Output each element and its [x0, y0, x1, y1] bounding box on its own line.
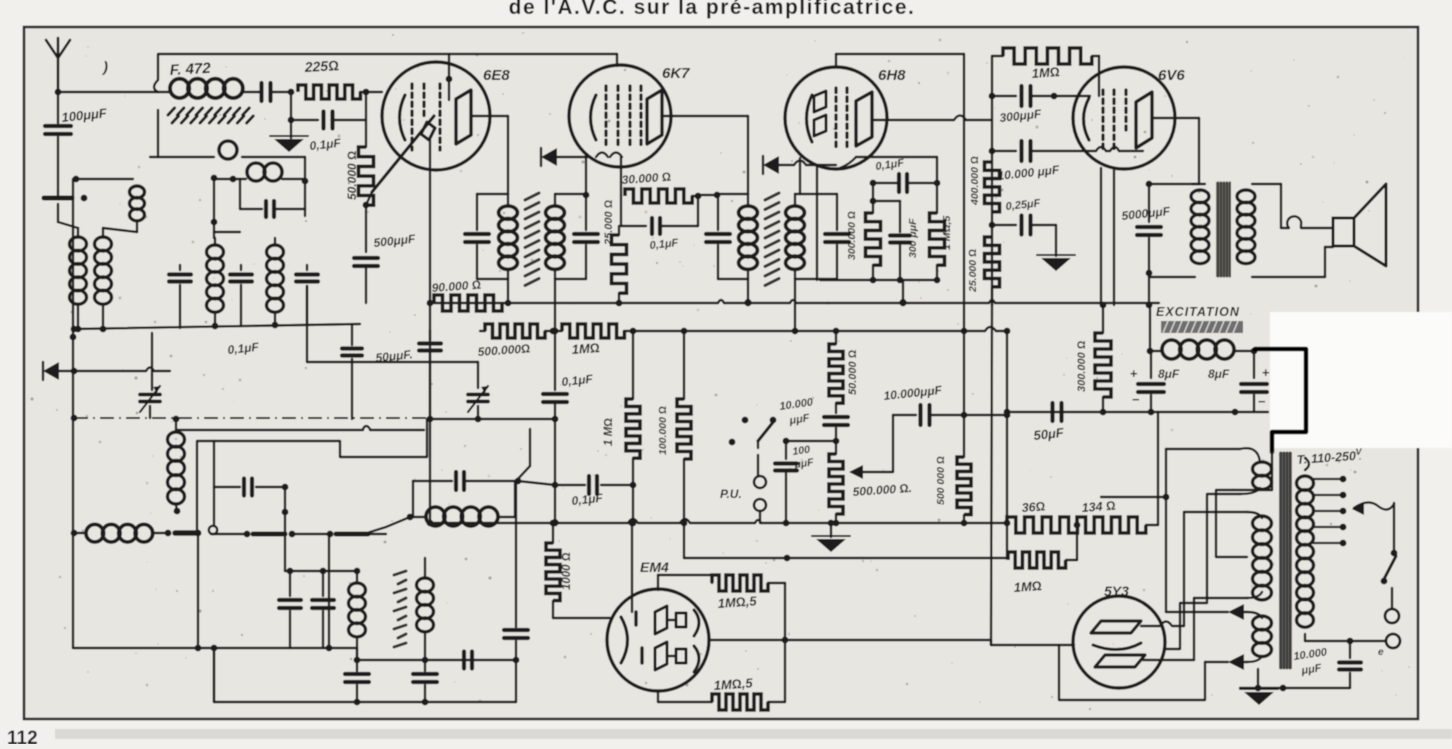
svg-text:36Ω: 36Ω: [1021, 499, 1046, 515]
svg-text:300 μμF: 300 μμF: [907, 218, 919, 258]
wire x992 column low: [991, 305, 992, 645]
label 8uF 1: [1158, 367, 1180, 381]
minus left: [1132, 392, 1140, 407]
PT W1 bottom wire: [1164, 494, 1240, 649]
IF2 core: [765, 193, 779, 286]
wire diode return: [794, 158, 806, 194]
wire 76 to coil: [76, 178, 133, 180]
AVC wire y371: [50, 368, 170, 375]
resistor 300000 supply: [1095, 305, 1111, 412]
label 30000 ohm: [621, 170, 671, 187]
label 1000 ohm: [561, 552, 573, 590]
svg-text:225Ω: 225Ω: [303, 57, 339, 75]
capacitor 10000uuF tone: [893, 405, 1010, 425]
EM4 right arc: [694, 610, 699, 672]
EM4 plate 1: [655, 606, 686, 634]
node L2 836: [833, 328, 840, 335]
capacitor 50uuF osc: [419, 330, 441, 419]
label 300000 supply: [1076, 340, 1088, 392]
label 1M5 top: [717, 593, 758, 611]
capacitor low 2: [413, 632, 437, 702]
label 5Y3: [1104, 583, 1129, 599]
AVC arrow 6K7: [541, 148, 557, 166]
primary bottom wire: [1305, 638, 1386, 645]
node 992-151: [989, 148, 996, 155]
caption text: [509, 0, 916, 19]
bus left y328: [71, 324, 360, 332]
resistor 1M5 top em4: [712, 575, 768, 591]
heater wires left: [1101, 449, 1228, 612]
label EM4: [640, 559, 669, 575]
resistor 1M5 bottom em4: [712, 694, 768, 710]
ground 6v6 grid: [1037, 255, 1075, 271]
resistor 1M heater: [1008, 533, 1077, 568]
osc coil left: [207, 238, 224, 329]
label 0.1uF 6k7: [649, 237, 679, 252]
resistor 30000 ohm: [625, 189, 692, 203]
mains terminal 1: [1385, 609, 1399, 623]
coil F472: [158, 79, 258, 98]
resistor 90000: [434, 295, 502, 311]
osc pad caps top wire: [285, 568, 360, 575]
resistor 1M det vert: [626, 331, 640, 526]
6V6 grid column 3: [1124, 90, 1127, 130]
AVC arrow left: [43, 362, 59, 380]
resistor 134 ohm: [1077, 517, 1146, 533]
resistor 225 ohm: [298, 85, 382, 99]
svg-text:1000 Ω: 1000 Ω: [561, 552, 573, 590]
6K7 grid column 1: [604, 86, 607, 148]
switch contact 1: [165, 530, 202, 537]
capacitor 0.1uF avc: [543, 328, 567, 527]
label 50uF: [1033, 425, 1066, 443]
capacitor 5000uuF: [1137, 184, 1161, 273]
wire det node down: [516, 429, 558, 627]
svg-text:112: 112: [7, 728, 38, 744]
label 1M vert det: [603, 418, 615, 446]
coil small left: [130, 186, 145, 232]
capacitor 0.1uF 6k7: [652, 218, 698, 234]
plus left: [1130, 366, 1138, 381]
node L5 787: [784, 555, 791, 562]
capacitor low 1: [345, 637, 369, 702]
capacitor 50uF: [1053, 403, 1062, 421]
6H8 diode plate 1: [814, 91, 826, 112]
ground detector: [812, 520, 850, 552]
tube 6H8 envelope: [785, 67, 887, 169]
svg-text:−: −: [1258, 394, 1266, 409]
label 025uF: [1005, 197, 1041, 213]
6E8 osc anode diamond: [421, 122, 435, 140]
excitation core bar: [1161, 321, 1243, 333]
node 233-179: [230, 176, 237, 183]
6V6 cathode: [1084, 98, 1090, 140]
6V6 grid column 1: [1101, 90, 1104, 152]
label 0.1uF top: [309, 136, 342, 153]
wire 903 down to L1: [900, 280, 907, 306]
label 6K7: [662, 65, 690, 82]
capacitor osc pair: [240, 179, 305, 217]
switch radio-pu: [729, 417, 777, 446]
IF2 primary winding and trimmer: [706, 194, 757, 279]
5Y3 plate 1: [1091, 621, 1141, 633]
6K7 grid column 4: [639, 86, 642, 148]
resistor 50000 vol: [829, 331, 843, 403]
IF2 secondary winding and trimmer: [786, 194, 849, 279]
label 25000 vert right: [967, 249, 979, 293]
resistor 400000: [985, 162, 1000, 212]
node after cap: [288, 89, 295, 96]
svg-text:6V6: 6V6: [1158, 67, 1185, 84]
label 36 ohm: [1021, 499, 1046, 515]
node L2 684: [681, 328, 688, 335]
PT taps: [1313, 476, 1346, 547]
6H8 grid column 2: [845, 88, 848, 150]
svg-text:6H8: 6H8: [878, 67, 906, 84]
label 6V6: [1158, 67, 1185, 84]
node 430-303: [427, 300, 434, 307]
potentiometer 500000: [829, 441, 843, 526]
label 134 ohm: [1081, 499, 1116, 515]
6K7 grid column 2: [616, 86, 619, 148]
6V6 plate wire: [1152, 118, 1199, 184]
svg-text:P.U.: P.U.: [720, 487, 742, 501]
node 836-441: [833, 438, 840, 445]
resistor 1M5: [930, 183, 945, 280]
svg-text:EXCITATION: EXCITATION: [1156, 305, 1240, 319]
resistor 1M top: [992, 48, 1099, 64]
6K7 grid column 3: [628, 86, 631, 148]
capacitor 0.1uF 6h8: [856, 157, 937, 192]
svg-text:300.000 Ω: 300.000 Ω: [846, 211, 858, 260]
EM4 plate 2: [655, 642, 686, 670]
svg-text:5Y3: 5Y3: [1104, 583, 1129, 599]
wire cap branch left: [619, 196, 646, 235]
capacitor 10000uuF vol: [824, 403, 848, 441]
capacitor 0.1uF left: [342, 349, 362, 420]
capacitor 0.1 y660: [464, 652, 472, 669]
label 100uuF pu: [792, 444, 815, 471]
node L1 1103: [1100, 302, 1107, 309]
svg-text:): ): [101, 59, 108, 76]
svg-text:1 MΩ: 1 MΩ: [603, 418, 615, 446]
label transformer: [1296, 446, 1363, 467]
6V6 cathode wires down: [1101, 168, 1114, 305]
resistor 100000 vert: [677, 331, 691, 526]
OT primary coil: [1191, 184, 1209, 264]
wire 5y3 loop to arrow: [1205, 661, 1228, 663]
EM4 grid wire: [629, 520, 636, 612]
6E8 grid column 1: [410, 84, 413, 150]
svg-text:1MΩ: 1MΩ: [1013, 578, 1042, 595]
bus L4: [430, 519, 1007, 523]
wire 134 right: [1146, 412, 1158, 525]
OT primary bottom wire: [1146, 270, 1195, 305]
capacitor 8uF 2: [1241, 351, 1267, 412]
label e terminal: [1378, 647, 1384, 658]
label 500000 pot: [852, 481, 912, 499]
PT W2 tap wire: [1216, 452, 1272, 557]
5Y3 plate 2: [1095, 655, 1145, 667]
label F.472: [169, 60, 211, 79]
field coil: [1150, 340, 1254, 359]
svg-text:de l'A.V.C. sur la pré-amplifi: de l'A.V.C. sur la pré-amplificatrice.: [509, 0, 916, 19]
switch contact 2: [211, 531, 285, 538]
IF1 secondary grid wire: [583, 154, 590, 198]
6E8 grid column 3: [438, 84, 441, 150]
PT primary: [1297, 458, 1314, 641]
tube 5Y3 envelope: [1073, 596, 1165, 688]
PT W1 top wire: [1166, 448, 1240, 450]
label 50uuF: [375, 347, 413, 365]
resistor 500000 avc: [485, 324, 545, 338]
node 214-178: [211, 175, 218, 182]
tube 6V6 envelope: [1073, 67, 1175, 169]
svg-text:1MΩ: 1MΩ: [571, 340, 600, 357]
label 5000uuF: [1121, 204, 1171, 223]
node L2 964: [961, 328, 968, 335]
label 1M5 vert: [941, 216, 953, 250]
wire osc grid: [307, 286, 478, 362]
6E8 grid top wire: [446, 54, 453, 100]
ground line y429: [176, 419, 427, 430]
6H8 cathode wire: [779, 157, 856, 168]
IF1 secondary winding and trimmer: [546, 194, 598, 279]
wire x214 down: [211, 178, 240, 238]
wire cap branch right: [697, 196, 699, 226]
capacitor 500uuF: [354, 258, 378, 303]
IF1 core: [525, 193, 539, 286]
wire x197 to switch: [196, 441, 198, 534]
6K7 plate wire: [662, 116, 748, 194]
wire pu stub: [758, 441, 760, 523]
svg-text:8μF: 8μF: [1208, 367, 1230, 381]
capacitor 300uuF coupling: [992, 86, 1090, 106]
resistor 25000 right: [985, 237, 1000, 305]
switch contact 3: [289, 531, 368, 538]
osc coil low 1: [349, 571, 366, 637]
wire em4 right top: [768, 583, 785, 702]
svg-text:100: 100: [792, 444, 811, 458]
svg-text:EM4: EM4: [640, 559, 669, 575]
PT W2 bottom wire: [1194, 597, 1247, 599]
svg-text:100.000 Ω: 100.000 Ω: [657, 406, 669, 455]
label 10000uuF: [997, 163, 1061, 183]
node 937-183: [934, 180, 941, 187]
svg-text:50.000 Ω: 50.000 Ω: [847, 349, 859, 395]
IF2 secondary to AVC: [792, 279, 799, 334]
wire antenna to frame box: [58, 91, 158, 93]
5Y3 plate2 wire: [1143, 598, 1194, 660]
antenna: [46, 38, 70, 92]
node 366-205: [363, 202, 370, 209]
PU terminal 2: [754, 499, 766, 511]
wire cathode down 621: [620, 157, 622, 196]
svg-text:500 000 Ω: 500 000 Ω: [935, 456, 947, 505]
node 992-96: [989, 93, 996, 100]
capacitor 10000uuF coupling: [992, 141, 1143, 161]
bus y648: [73, 645, 357, 652]
svg-text:F. 472: F. 472: [169, 60, 211, 79]
EM4 cathode arc: [621, 617, 628, 663]
horizontal coil lw: [86, 524, 165, 542]
resistor 500000 right: [957, 331, 971, 526]
label 300uuF right: [999, 107, 1043, 125]
OT core: [1216, 182, 1231, 277]
svg-text:−: −: [1132, 392, 1140, 407]
bus L2 avc: [480, 327, 1007, 331]
white patch: [1270, 312, 1452, 448]
page number 112: [7, 728, 38, 749]
label excitation: [1156, 305, 1240, 319]
varcap tuning 1: [140, 333, 160, 418]
6K7 top wire: [616, 54, 618, 66]
wire 937 up: [936, 157, 938, 183]
node 873-201: [870, 198, 877, 205]
frame box outline: [154, 54, 617, 92]
wire x964 grid return: [963, 54, 965, 331]
6K7 cathode wire: [557, 153, 622, 158]
wire x1099 down: [1098, 56, 1100, 96]
wire em4 to 5y3: [991, 640, 1059, 645]
wire gnd branch: [1055, 225, 1057, 256]
resistor 25000 6k7: [612, 235, 627, 306]
svg-text:+: +: [1130, 366, 1138, 381]
label 50000 vert vol: [847, 349, 859, 395]
svg-text:6E8: 6E8: [483, 67, 510, 84]
resistor 300000 ohm 6h8: [866, 213, 881, 280]
label 1M heater: [1013, 578, 1042, 595]
label 300000 ohm vert: [846, 211, 858, 260]
filament arrows: [1228, 604, 1247, 670]
capacitor pad 2: [312, 571, 334, 648]
tall coil 1: [70, 228, 87, 332]
wire x992: [991, 56, 993, 305]
capacitor 300uuF: [890, 236, 910, 281]
6H8 cathode: [807, 95, 813, 142]
5Y3 loop wire: [1059, 645, 1205, 700]
label 10000uuF vol: [779, 396, 815, 427]
node L1 1149: [1146, 302, 1153, 309]
pot arrow: [849, 415, 893, 479]
6E8 plate wire: [471, 116, 508, 194]
switch stud 1: [209, 526, 217, 534]
node L2 633: [630, 328, 637, 335]
5Y3 filament arc: [1093, 643, 1141, 650]
EM4 target wire top: [658, 575, 712, 590]
label 10000uuF tone: [883, 383, 943, 403]
capacitor 0.1uF det: [555, 476, 636, 494]
ground antenna section: [270, 136, 308, 152]
label 500000 avc: [477, 341, 530, 359]
hatch shading under F472: [168, 108, 253, 123]
svg-text:300.000 Ω: 300.000 Ω: [1076, 340, 1088, 392]
osc jog wire: [198, 429, 427, 457]
node 73-337: [70, 334, 77, 341]
5Y3 plate1 wire: [1141, 622, 1184, 627]
svg-text:25.000 Ω: 25.000 Ω: [967, 249, 979, 293]
PT secondary W1: [1240, 448, 1272, 494]
wire x817 down: [816, 167, 818, 280]
resistor 1M avc: [562, 324, 624, 338]
capacitor osc 1: [169, 265, 191, 328]
wire 1000 to em4: [553, 617, 610, 619]
wire y441 pu to pot: [786, 440, 836, 442]
minus right: [1258, 394, 1266, 409]
correction black line: [1255, 349, 1306, 452]
detector coil: [407, 507, 515, 526]
label 0.1uF det: [571, 491, 604, 508]
6H8 anode: [856, 92, 872, 146]
label 500uuF: [373, 232, 417, 250]
bus 6h8 bottom: [820, 277, 940, 284]
label 10000uuF mains: [1293, 646, 1329, 677]
6E8 anode: [456, 90, 471, 144]
mains terminal 2: [1386, 634, 1400, 648]
speaker: [1333, 184, 1386, 266]
svg-text:1MΩ,5: 1MΩ,5: [713, 675, 754, 693]
capacitor series antenna: [258, 83, 288, 101]
bus y700: [214, 648, 516, 705]
wire 873 down: [872, 183, 874, 213]
6H8 top wire: [836, 54, 964, 67]
detector coil right node: [515, 481, 555, 517]
varcap tuning 2: [468, 362, 488, 422]
label 400000 vert: [969, 156, 981, 206]
6E8 cathode: [400, 95, 406, 140]
wire x1007 column: [1004, 328, 1011, 558]
wire x430 lower: [427, 416, 434, 527]
capacitor 100uuF pu: [775, 438, 797, 527]
ground mains: [1240, 669, 1350, 705]
node field right: [1251, 348, 1258, 355]
IF1 secondary to AVC: [552, 279, 559, 334]
switch contact antenna: [44, 192, 87, 201]
label 6E8: [483, 67, 510, 84]
label 6H8: [878, 67, 906, 84]
IF1 primary winding and trimmer: [465, 194, 517, 279]
bottom page strip: [55, 729, 1452, 739]
6K7 anode: [647, 90, 662, 144]
IF1 primary feed: [505, 279, 512, 306]
capacitor 100uuF antenna: [45, 92, 71, 192]
label 8uF 2: [1208, 367, 1230, 381]
left bus vertical: [72, 179, 74, 648]
capacitor 0.1uF agc: [291, 112, 366, 129]
PU terminal 1: [754, 476, 766, 488]
6V6 anode: [1136, 92, 1152, 148]
6H8 diode plate 2: [814, 115, 826, 136]
svg-text:134 Ω: 134 Ω: [1081, 499, 1116, 515]
resistor 36 ohm: [1007, 517, 1077, 533]
svg-text:1MΩ,5: 1MΩ,5: [717, 593, 758, 611]
node 285-487: [282, 484, 289, 571]
label 300uuF vert: [907, 218, 919, 258]
node antenna: [55, 89, 62, 96]
6E8 slant electrode: [372, 116, 434, 192]
osc coil low 2: [417, 558, 434, 632]
osc coil right: [267, 238, 284, 328]
wire det to switch: [364, 517, 410, 534]
wire mid cap branch: [873, 201, 900, 232]
svg-text:1MΩ: 1MΩ: [1031, 64, 1060, 81]
OT secondary top wire: [1252, 184, 1281, 228]
wire coils top: [58, 204, 137, 232]
wire down from 291: [290, 92, 292, 138]
label 1Mohm top: [1031, 64, 1060, 81]
cap top lead: [351, 325, 353, 345]
node 291-120: [288, 117, 295, 124]
